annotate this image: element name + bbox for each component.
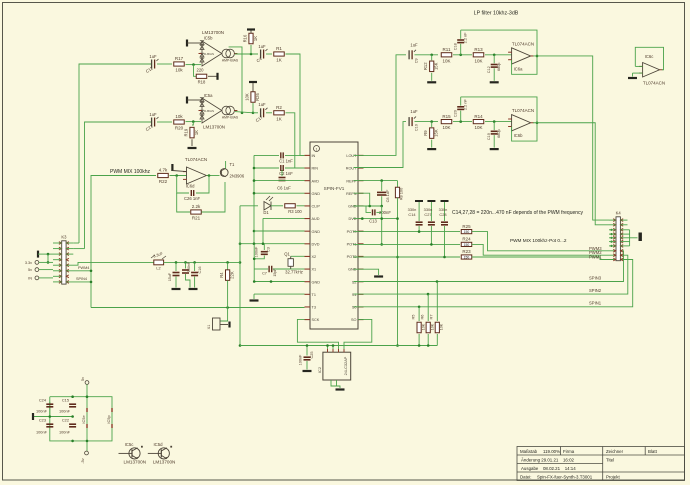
svg-text:Ausgabe 08.02.21 14:14: Ausgabe 08.02.21 14:14 bbox=[521, 466, 576, 471]
svg-text:24LC32AP: 24LC32AP bbox=[343, 356, 348, 375]
svg-text:C8 1uF: C8 1uF bbox=[385, 189, 390, 202]
svg-text:C12: C12 bbox=[487, 66, 491, 73]
svg-text:IC5a: IC5a bbox=[204, 93, 214, 98]
svg-text:150: 150 bbox=[464, 243, 470, 247]
wire S2 SPIN3 line bbox=[354, 251, 624, 282]
svg-text:10k: 10k bbox=[175, 68, 183, 73]
svg-text:Zeichner: Zeichner bbox=[606, 449, 624, 454]
svg-text:PWM4: PWM4 bbox=[78, 266, 89, 270]
svg-text:C13: C13 bbox=[369, 219, 377, 224]
svg-text:100nF: 100nF bbox=[255, 246, 259, 257]
svg-text:K3: K3 bbox=[61, 235, 67, 240]
wire PWM MIX net bbox=[91, 176, 156, 308]
wire comb to ground bbox=[629, 230, 631, 246]
terminal IN bbox=[35, 276, 39, 280]
svg-text:C7: C7 bbox=[262, 272, 267, 276]
svg-text:R4: R4 bbox=[219, 272, 224, 278]
capacitor C12 bbox=[493, 55, 495, 64]
svg-text:TL074ACN: TL074ACN bbox=[512, 41, 534, 46]
capacitor C23 bbox=[46, 423, 53, 425]
svg-text:100nF: 100nF bbox=[59, 409, 71, 414]
resistor R20 bbox=[174, 120, 185, 124]
svg-text:C24: C24 bbox=[39, 398, 47, 403]
svg-text:R23: R23 bbox=[462, 249, 471, 254]
resistor R17 bbox=[174, 62, 185, 66]
terminal 5v bbox=[35, 268, 39, 272]
wire IC6b output bbox=[533, 123, 609, 225]
svg-text:T1: T1 bbox=[312, 293, 316, 297]
wire ground branch down bbox=[47, 254, 49, 262]
svg-text:Änderung 29.01.21 16:02: Änderung 29.01.21 16:02 bbox=[521, 458, 575, 463]
wire 3.3v rail bbox=[66, 262, 154, 265]
svg-text:15K: 15K bbox=[434, 129, 439, 137]
svg-text:Projekt: Projekt bbox=[606, 475, 620, 480]
capacitor C1 bbox=[254, 154, 279, 156]
wire input net to C11 bbox=[79, 64, 151, 243]
svg-text:TL074ACN: TL074ACN bbox=[512, 108, 534, 113]
wire R25 to K4 bbox=[472, 232, 616, 251]
svg-text:R7: R7 bbox=[429, 315, 434, 320]
wire AUD line bbox=[263, 217, 305, 219]
svg-text:10K: 10K bbox=[440, 323, 444, 330]
wire IC6c feedback bbox=[635, 65, 642, 67]
svg-text:PWM MIX 100khz: PWM MIX 100khz bbox=[110, 169, 151, 175]
terminal bar plus input IC5b bbox=[186, 40, 188, 47]
wire T1 collector stub bbox=[225, 161, 227, 168]
svg-text:1uF: 1uF bbox=[149, 54, 157, 59]
svg-text:Maßstab: Maßstab bbox=[520, 449, 538, 454]
capacitor C27 bbox=[427, 200, 435, 202]
svg-text:GND: GND bbox=[312, 230, 321, 234]
svg-text:AMP-BIAS: AMP-BIAS bbox=[222, 116, 239, 120]
svg-text:680p: 680p bbox=[497, 129, 501, 137]
svg-text:R21: R21 bbox=[192, 216, 201, 221]
svg-text:RIN: RIN bbox=[312, 167, 319, 171]
svg-text:DVD: DVD bbox=[348, 217, 356, 221]
resistor R9 vertical bbox=[431, 122, 433, 128]
svg-text:C18: C18 bbox=[454, 43, 458, 50]
wire T3 bus bbox=[91, 307, 305, 309]
svg-text:C16: C16 bbox=[198, 267, 202, 274]
wire feedback through C26 bbox=[177, 176, 189, 194]
terminal bar IC6d plus input bbox=[171, 164, 173, 171]
svg-text:15pF: 15pF bbox=[273, 268, 277, 277]
svg-text:Firma: Firma bbox=[563, 449, 575, 454]
svg-text:10K: 10K bbox=[431, 323, 435, 330]
wire GND pin line bbox=[254, 192, 305, 194]
svg-text:3.3v: 3.3v bbox=[25, 261, 32, 265]
svg-text:TL074ACN: TL074ACN bbox=[643, 81, 665, 86]
wire R14 to op-amp bbox=[485, 121, 512, 123]
svg-text:SPIN4: SPIN4 bbox=[76, 277, 87, 281]
capacitor C7 bbox=[254, 268, 268, 270]
svg-text:IC6c: IC6c bbox=[645, 54, 654, 59]
svg-text:150: 150 bbox=[464, 256, 470, 260]
svg-text:R5: R5 bbox=[411, 315, 416, 320]
resistor R22 bbox=[158, 173, 169, 177]
capacitor C25 bbox=[306, 346, 308, 356]
resistor R25 bbox=[461, 230, 472, 234]
capacitor C29 15uF bbox=[175, 262, 177, 271]
svg-text:R14: R14 bbox=[474, 114, 483, 119]
capacitor C24 bbox=[49, 402, 51, 415]
capacitor C26 bbox=[190, 190, 192, 196]
terminal bar mid rail bbox=[32, 413, 34, 420]
svg-text:DVD: DVD bbox=[312, 242, 320, 246]
svg-text:R25: R25 bbox=[462, 224, 471, 229]
capacitor C19 bbox=[493, 122, 495, 131]
svg-text:REFN: REFN bbox=[346, 192, 357, 196]
svg-text:T1: T1 bbox=[230, 162, 236, 167]
resistor R14 bbox=[473, 120, 484, 124]
svg-text:IC6d: IC6d bbox=[186, 184, 196, 189]
svg-text:200nF: 200nF bbox=[379, 210, 391, 215]
svg-text:R22: R22 bbox=[159, 179, 168, 184]
svg-text:R1: R1 bbox=[276, 46, 282, 51]
svg-text:R17: R17 bbox=[175, 56, 184, 61]
svg-text:C2 1nF: C2 1nF bbox=[279, 171, 293, 176]
svg-text:15K: 15K bbox=[434, 62, 439, 70]
resistor R12 vertical bbox=[431, 55, 433, 61]
svg-text:IC5e: IC5e bbox=[81, 415, 86, 423]
wire T1 pin line bbox=[254, 293, 305, 295]
wire vertical x382 net bbox=[381, 206, 383, 244]
svg-text:K4: K4 bbox=[616, 211, 622, 216]
resistor R18 bbox=[194, 65, 197, 77]
wire K3 row2 net bbox=[73, 248, 84, 250]
svg-text:Datei:: Datei: bbox=[520, 475, 531, 480]
svg-text:GND: GND bbox=[312, 192, 321, 196]
wire REFP to R8 bbox=[354, 180, 398, 182]
terminal bar plus input IC5a bbox=[186, 97, 188, 104]
svg-text:C6 1uF: C6 1uF bbox=[277, 186, 291, 191]
wire K4 row1 stub bbox=[609, 219, 616, 221]
svg-text:C27: C27 bbox=[424, 212, 431, 217]
resistor R1 bbox=[266, 53, 272, 55]
wire ROUT to filter2 bbox=[354, 122, 407, 168]
capacitor C3 bbox=[263, 244, 265, 250]
ground T1 pin bbox=[253, 294, 255, 299]
svg-text:TL074ACN: TL074ACN bbox=[185, 157, 207, 162]
resistor R19 bbox=[192, 122, 193, 125]
svg-text:1K: 1K bbox=[276, 116, 282, 121]
resistor R26 bbox=[252, 103, 254, 113]
svg-text:CLIP: CLIP bbox=[312, 205, 321, 209]
svg-text:C3: C3 bbox=[267, 247, 271, 252]
ground C29 bbox=[172, 288, 181, 290]
svg-text:220: 220 bbox=[197, 68, 205, 73]
wire bottom bus bbox=[240, 345, 437, 347]
capacitor C30 100nF bbox=[185, 262, 187, 268]
svg-text:IC2: IC2 bbox=[317, 367, 322, 373]
wire C10 to R9 bbox=[415, 121, 439, 123]
wire IC6b feedback loop bbox=[461, 97, 537, 141]
capacitor C15 bbox=[69, 403, 76, 405]
svg-text:AVD: AVD bbox=[312, 179, 320, 183]
wire K4 row2 stub bbox=[609, 224, 616, 226]
wire input net to C21 bbox=[85, 122, 152, 249]
wire DVD right line bbox=[354, 218, 398, 220]
wire R2 to SPIN RIN bbox=[286, 113, 305, 168]
IC IC2 24LC32AP body bbox=[323, 352, 351, 380]
wire mid rail bbox=[34, 416, 73, 418]
svg-text:SPIN1: SPIN1 bbox=[589, 301, 602, 306]
wire IC5a output to C17 bbox=[235, 112, 253, 113]
wire GND2 line bbox=[254, 230, 305, 232]
svg-text:R9: R9 bbox=[423, 130, 428, 136]
wire GND right line bbox=[354, 205, 383, 207]
svg-text:1K: 1K bbox=[253, 36, 258, 41]
wire DVD feed vertical bbox=[239, 244, 241, 263]
wire R17 to OTA IC5b input bbox=[186, 64, 202, 66]
svg-text:C10: C10 bbox=[415, 124, 419, 131]
IC2 top pins bbox=[327, 346, 329, 353]
svg-text:1uF: 1uF bbox=[258, 44, 266, 49]
junction node R18 tap bbox=[192, 63, 195, 66]
svg-text:S1: S1 bbox=[352, 293, 357, 297]
svg-text:X1: X1 bbox=[312, 268, 317, 272]
svg-text:2.2 nF: 2.2 nF bbox=[464, 32, 468, 43]
wire power rails bbox=[86, 384, 88, 451]
svg-text:SPIN2: SPIN2 bbox=[589, 288, 602, 293]
capacitor C18 2.2nF bbox=[460, 44, 462, 55]
svg-text:R19: R19 bbox=[184, 128, 189, 136]
resistor R4 bbox=[227, 262, 229, 270]
svg-text:2.2k: 2.2k bbox=[192, 204, 201, 209]
wire R23 to K4 bbox=[472, 257, 616, 260]
svg-text:LM13700N: LM13700N bbox=[153, 460, 175, 465]
ground K3 bbox=[37, 251, 39, 258]
svg-text:LM13700N: LM13700N bbox=[203, 125, 225, 130]
resistor R23 bbox=[461, 255, 472, 259]
wire R15 to R14 bbox=[453, 121, 472, 123]
resistor R8 bbox=[397, 181, 399, 188]
svg-text:-5v: -5v bbox=[81, 458, 85, 463]
capacitor C16 bbox=[194, 262, 196, 271]
wire L2 to R4 bbox=[164, 261, 240, 263]
wire C9 to R12 bbox=[415, 54, 439, 56]
wire IC6a output bbox=[533, 56, 609, 220]
svg-text:IC5c: IC5c bbox=[125, 442, 135, 447]
svg-text:15uF: 15uF bbox=[168, 272, 172, 281]
wire POT1 line bbox=[354, 243, 461, 245]
wire R21 to T1 emitter bbox=[202, 182, 226, 212]
svg-text:C23: C23 bbox=[39, 418, 46, 423]
junction R26 tap bbox=[252, 112, 255, 115]
wire R22 to IC6d bbox=[170, 175, 187, 177]
svg-text:PWM MIX 100khz-Pot 0...2: PWM MIX 100khz-Pot 0...2 bbox=[510, 238, 567, 243]
terminal 5v supply bbox=[85, 381, 89, 385]
wire K3 right stubs bbox=[66, 242, 73, 244]
capacitor C21 bbox=[151, 118, 153, 127]
IC2 bottom pins to ground bbox=[331, 380, 340, 388]
wire GND3 line bbox=[254, 281, 304, 283]
capacitor C8 bbox=[381, 181, 383, 191]
wire IC6a feedback loop bbox=[461, 30, 537, 74]
capacitor C4 bbox=[260, 50, 262, 59]
svg-text:1: 1 bbox=[316, 147, 318, 151]
ground C25 bbox=[303, 370, 312, 372]
svg-text:C1 1nF: C1 1nF bbox=[279, 158, 293, 163]
wire AVD line bbox=[254, 180, 278, 182]
svg-text:LP filter 10khz-3dB: LP filter 10khz-3dB bbox=[474, 11, 519, 17]
capacitor C11 bbox=[151, 60, 153, 69]
svg-text:Q1: Q1 bbox=[284, 252, 290, 257]
junction feedback tap bbox=[175, 174, 178, 177]
capacitor C2 bbox=[254, 167, 279, 169]
svg-text:R8 100: R8 100 bbox=[399, 187, 404, 200]
svg-text:SPIN3: SPIN3 bbox=[589, 276, 602, 281]
wire K3 left stubs bbox=[53, 242, 62, 244]
svg-text:Blatt: Blatt bbox=[648, 449, 658, 454]
wire R20 to OTA IC5a input bbox=[186, 121, 202, 123]
wire DVD line bbox=[240, 243, 305, 245]
ground R9 bbox=[427, 148, 436, 150]
svg-text:D-BIAS: D-BIAS bbox=[204, 109, 214, 113]
svg-text:SCK: SCK bbox=[312, 318, 320, 322]
wire SO loop to IC2 bbox=[344, 319, 372, 352]
capacitor C6 bbox=[281, 170, 283, 176]
wire left net to GND row bbox=[253, 244, 255, 282]
terminal 3.3v bbox=[35, 261, 39, 265]
svg-text:1K: 1K bbox=[276, 58, 282, 63]
svg-text:IN: IN bbox=[28, 277, 32, 281]
capacitor C20 2.2nF bbox=[460, 111, 462, 122]
svg-text:100nF: 100nF bbox=[36, 409, 48, 414]
resistor R21 bbox=[191, 210, 202, 214]
resistor R3 bbox=[285, 204, 296, 208]
wire CLIP-DVD vertical bbox=[239, 206, 241, 346]
svg-text:IN: IN bbox=[312, 154, 316, 158]
resistor R11 bbox=[441, 53, 452, 57]
ground IC6c input bbox=[633, 72, 643, 74]
title block frame bbox=[517, 447, 685, 481]
svg-text:D-BIAS: D-BIAS bbox=[204, 52, 214, 56]
svg-text:R20: R20 bbox=[175, 126, 184, 131]
svg-text:10K: 10K bbox=[474, 58, 482, 63]
svg-text:X2: X2 bbox=[312, 255, 317, 259]
svg-text:R24: R24 bbox=[462, 237, 471, 242]
svg-text:R11: R11 bbox=[443, 47, 451, 52]
ground C16 bbox=[189, 288, 198, 290]
svg-text:Spin-FX-fuer-Synth-3.T3001: Spin-FX-fuer-Synth-3.T3001 bbox=[537, 475, 593, 480]
svg-text:GND: GND bbox=[312, 280, 321, 284]
capacitor C17 bbox=[253, 112, 258, 114]
svg-text:R2: R2 bbox=[276, 105, 282, 110]
svg-text:LM13700N: LM13700N bbox=[124, 460, 146, 465]
ground R12 bbox=[427, 81, 436, 83]
crystal Q1 bbox=[291, 255, 305, 257]
svg-text:GND: GND bbox=[348, 268, 357, 272]
svg-text:4.7k: 4.7k bbox=[159, 168, 168, 173]
svg-text:X1: X1 bbox=[207, 325, 211, 330]
wire K3 row1 net bbox=[73, 242, 79, 244]
svg-text:22K: 22K bbox=[230, 271, 235, 279]
svg-text:T3: T3 bbox=[312, 306, 316, 310]
svg-text:10K: 10K bbox=[474, 125, 482, 130]
wire POT0 line bbox=[354, 231, 461, 233]
svg-text:10K: 10K bbox=[442, 58, 450, 63]
svg-text:Titel: Titel bbox=[606, 458, 614, 463]
wire vertical net left of SPIN bbox=[253, 155, 255, 243]
svg-text:GND: GND bbox=[348, 205, 357, 209]
svg-text:1uF: 1uF bbox=[410, 42, 418, 47]
svg-text:R13: R13 bbox=[474, 47, 483, 52]
svg-text:100nF: 100nF bbox=[299, 354, 303, 365]
ground R19 bbox=[188, 147, 197, 149]
svg-text:R12: R12 bbox=[423, 62, 428, 70]
ground right lower bbox=[374, 275, 383, 277]
svg-text:32.77kHz: 32.77kHz bbox=[285, 270, 303, 275]
transistor T1 bbox=[220, 169, 228, 177]
svg-text:REFP: REFP bbox=[346, 179, 357, 183]
wire C26 to output node bbox=[196, 176, 209, 194]
svg-text:1K: 1K bbox=[194, 130, 199, 135]
wire D1 to R3 bbox=[271, 205, 283, 207]
svg-text:10k: 10k bbox=[175, 114, 183, 119]
svg-text:LM13700N: LM13700N bbox=[202, 30, 224, 35]
resistor R7 bbox=[436, 282, 438, 322]
svg-text:C14,27,28 = 220n...470 nF depe: C14,27,28 = 220n...470 nF depends of the… bbox=[452, 210, 584, 216]
svg-text:D1: D1 bbox=[263, 210, 269, 215]
svg-text:AMP-BIAS: AMP-BIAS bbox=[222, 59, 239, 63]
svg-text:10K: 10K bbox=[442, 125, 450, 130]
wire SCK loop to IC2 bbox=[297, 319, 338, 352]
resistor R2 bbox=[266, 112, 272, 114]
wire C21 to R20 bbox=[157, 121, 172, 123]
crystal X1 test point bbox=[220, 308, 228, 322]
capacitor C10 bbox=[408, 117, 410, 126]
svg-text:1uF: 1uF bbox=[149, 112, 157, 117]
svg-text:C28: C28 bbox=[439, 212, 446, 217]
wire S1 SPIN2 line bbox=[354, 255, 628, 294]
svg-text:2N3906: 2N3906 bbox=[230, 174, 245, 179]
ground C12 bbox=[490, 81, 499, 83]
IC U1 SPIN-FV1 pins bbox=[305, 154, 311, 156]
wire vertical x398 net bbox=[397, 198, 399, 346]
svg-text:R3 100: R3 100 bbox=[288, 209, 302, 214]
svg-text:C14: C14 bbox=[408, 212, 416, 217]
svg-text:C9: C9 bbox=[415, 58, 419, 63]
wire IC5b bias feed bbox=[229, 47, 242, 113]
resistor R16 bbox=[250, 45, 252, 54]
wire IC5b output to C4 bbox=[235, 53, 258, 55]
junction R16 tap bbox=[250, 53, 253, 56]
wire LOUT to filter1 bbox=[354, 55, 407, 156]
svg-text:IC6a: IC6a bbox=[514, 66, 524, 71]
terminal -5v supply bbox=[85, 451, 89, 455]
svg-text:680p: 680p bbox=[497, 63, 501, 71]
svg-text:150: 150 bbox=[464, 230, 470, 234]
capacitor C28 bbox=[441, 200, 449, 202]
svg-text:C22: C22 bbox=[62, 418, 69, 423]
svg-text:C26 1nF: C26 1nF bbox=[184, 196, 201, 201]
svg-text:C20: C20 bbox=[454, 110, 458, 117]
svg-text:R6: R6 bbox=[420, 315, 425, 320]
resistor R15 bbox=[441, 120, 452, 124]
wire K4 ground comb bbox=[620, 229, 629, 231]
svg-text:C15: C15 bbox=[62, 398, 69, 403]
wire REFN jog to GND rail bbox=[354, 193, 370, 206]
svg-text:2.2 nF: 2.2 nF bbox=[464, 99, 468, 110]
svg-text:LOUT: LOUT bbox=[346, 154, 357, 158]
svg-text:100nF: 100nF bbox=[187, 261, 191, 272]
svg-text:IC5b: IC5b bbox=[204, 36, 214, 41]
resistor R13 bbox=[473, 53, 484, 57]
svg-text:IC5p: IC5p bbox=[106, 415, 111, 423]
inductor L2 ferrite bead bbox=[154, 260, 164, 265]
diode D1 LED bbox=[264, 202, 271, 211]
